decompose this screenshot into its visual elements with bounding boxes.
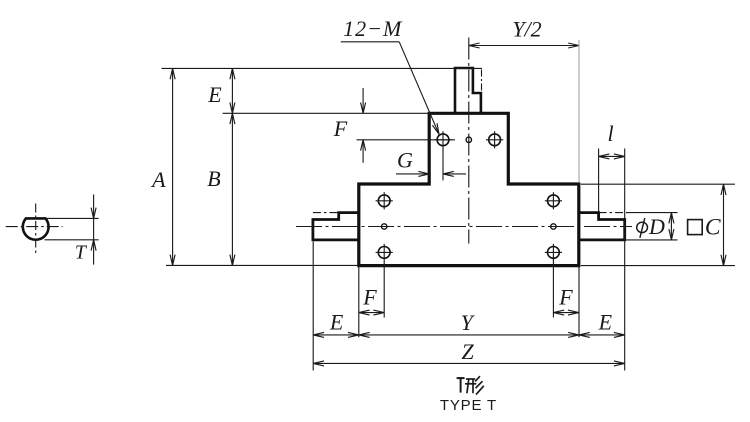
svg-text:F: F xyxy=(333,116,348,141)
small center hole right xyxy=(551,224,556,229)
svg-text:E: E xyxy=(329,310,344,335)
vertical center line xyxy=(468,38,470,244)
left view vertical center line xyxy=(35,204,37,254)
dim E bottom-right xyxy=(579,334,625,336)
horizontal center line xyxy=(296,226,632,228)
small center hole left xyxy=(382,224,387,229)
svg-text:T: T xyxy=(75,241,88,263)
dim G (outside arrows) xyxy=(396,173,429,175)
dim F top (outside arrows) xyxy=(362,88,364,113)
left stub hidden flat line xyxy=(313,212,339,214)
dim C extension lines xyxy=(581,183,735,185)
svg-text:D: D xyxy=(648,214,665,239)
top tab (boss with step) xyxy=(455,68,481,113)
svg-text:G: G xyxy=(397,148,413,173)
bottom extension line x=358.8 xyxy=(358,267,360,337)
dim C xyxy=(723,184,725,266)
svg-text:12−M: 12−M xyxy=(343,16,403,41)
hole lower-right-top xyxy=(548,195,560,207)
tab step center line (dash-dot) xyxy=(481,70,483,92)
svg-text:A: A xyxy=(150,167,166,192)
svg-text:C: C xyxy=(705,214,721,240)
svg-text:Y: Y xyxy=(461,310,476,335)
dim Y/2 xyxy=(469,45,579,47)
phi-D extension lines xyxy=(626,212,678,214)
hole lower-right-bottom xyxy=(548,247,560,259)
dim A line xyxy=(172,68,174,265)
dim E bottom-left xyxy=(313,334,359,336)
dim T extension lines xyxy=(46,217,99,219)
12-M leader with underline xyxy=(341,41,399,43)
label square-C xyxy=(688,220,703,235)
hole lower-left-bottom xyxy=(378,247,390,259)
dim phi-D xyxy=(670,213,672,240)
main body outline (T-shape) xyxy=(359,113,579,265)
bottom extension line x=313.2 xyxy=(312,242,314,371)
hole upper-right xyxy=(489,134,501,146)
dim E top + B line xyxy=(231,68,233,265)
dim l xyxy=(598,149,600,213)
dim Z xyxy=(313,362,625,364)
Y/2 - Y gray extension line xyxy=(578,40,580,183)
small center hole upper xyxy=(466,137,471,142)
svg-text:l: l xyxy=(607,121,613,146)
left view horizontal center line xyxy=(6,226,63,228)
right shaft stub with flat xyxy=(579,213,625,240)
right stub hidden flat line (dash-dot, extends right) xyxy=(599,212,627,214)
dim F bottom-right xyxy=(553,312,578,314)
top extension line (tab top level) xyxy=(162,67,483,69)
svg-text:E: E xyxy=(207,82,222,107)
svg-text:E: E xyxy=(598,310,613,335)
hole upper-left xyxy=(437,134,449,146)
left shaft stub with flat xyxy=(313,213,359,240)
svg-text:F: F xyxy=(558,285,573,310)
svg-text:Z: Z xyxy=(461,339,474,364)
svg-text:TYPE T: TYPE T xyxy=(440,397,497,414)
kanji 形 strokes xyxy=(465,376,484,394)
hole lower-left-top xyxy=(378,195,390,207)
svg-text:B: B xyxy=(207,166,220,191)
dim Y xyxy=(359,334,579,336)
svg-text:F: F xyxy=(362,285,377,310)
title T (drawn) xyxy=(457,377,465,392)
svg-text:Y/2: Y/2 xyxy=(512,17,541,42)
label phi symbol (drawn) xyxy=(637,222,648,232)
F top extension line through hole xyxy=(357,139,456,141)
left view: shaft section with flat xyxy=(23,218,49,239)
bottom-left extension line (body bottom level) xyxy=(166,264,359,266)
extension line (upper block top level) xyxy=(223,112,430,114)
dim F bottom-left xyxy=(359,312,384,314)
dim T line and arrows xyxy=(93,195,95,265)
